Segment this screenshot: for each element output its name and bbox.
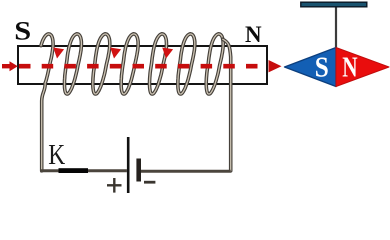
coil turn 7 [206,34,223,94]
hanging thread [335,8,337,49]
left red arrow [2,64,11,68]
switch K contact bar [59,168,89,173]
svg-text:S: S [14,17,31,45]
coil turn 3 [93,34,110,94]
svg-text:N: N [342,53,357,83]
current arrow 1 [53,48,64,59]
stand bar [301,2,367,7]
coil turn 1 (partial) + left lead wire [41,34,53,171]
coil turn 4 [121,34,138,94]
needle S half (blue) [285,48,337,87]
coil end + right lead wire [223,39,231,171]
bottom wire right segment [141,170,231,173]
current arrow 3 [162,48,173,59]
dashed field axis [19,64,270,69]
current arrow 2 [110,48,121,59]
plus label [107,178,122,193]
svg-text:K: K [48,138,65,171]
coil turn 2 [65,34,82,94]
minus label [144,181,155,184]
solenoid core box [18,46,267,84]
right red arrowhead [269,60,282,72]
coil turn 6 [178,34,195,94]
svg-text:N: N [245,22,262,47]
needle N half (red) [336,48,389,87]
battery long plate + [127,137,130,193]
battery short plate - [136,159,141,182]
svg-text:S: S [315,51,329,83]
bottom wire left segment [40,169,127,172]
coil turn 5 [150,34,167,94]
